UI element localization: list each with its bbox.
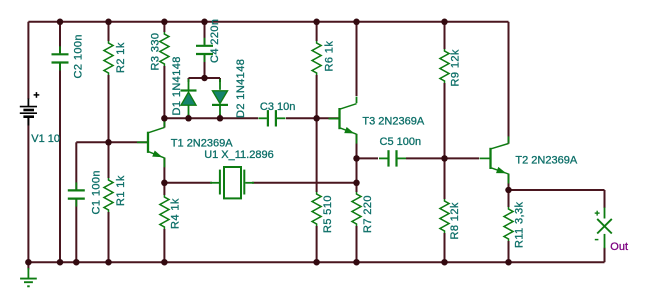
- svg-text:R5 510: R5 510: [322, 195, 334, 233]
- svg-text:R2 1k: R2 1k: [115, 42, 127, 73]
- svg-text:D1 1N4148: D1 1N4148: [171, 56, 183, 115]
- svg-text:C4 220n: C4 220n: [209, 19, 221, 63]
- svg-text:R9 12k: R9 12k: [450, 49, 462, 86]
- svg-text:D2 1N4148: D2 1N4148: [235, 59, 247, 118]
- svg-text:R3 330: R3 330: [149, 33, 161, 71]
- svg-text:R8 12k: R8 12k: [449, 202, 461, 239]
- svg-text:R7 220: R7 220: [362, 195, 374, 233]
- svg-text:R6 1k: R6 1k: [324, 41, 336, 72]
- svg-text:V1 10: V1 10: [31, 133, 60, 145]
- svg-text:T3 2N2369A: T3 2N2369A: [362, 116, 424, 128]
- svg-text:R1 1k: R1 1k: [115, 175, 127, 206]
- svg-text:Out: Out: [610, 241, 628, 253]
- svg-text:C3 10n: C3 10n: [260, 101, 295, 113]
- svg-text:U1 X_11.2896: U1 X_11.2896: [204, 149, 274, 161]
- svg-text:R11 3,3k: R11 3,3k: [513, 201, 525, 248]
- svg-text:C2 100n: C2 100n: [72, 34, 84, 78]
- svg-text:T2 2N2369A: T2 2N2369A: [515, 155, 577, 167]
- svg-text:R4 1k: R4 1k: [170, 198, 182, 229]
- svg-text:C1 100n: C1 100n: [91, 170, 103, 214]
- svg-text:C5 100n: C5 100n: [380, 136, 422, 148]
- svg-text:T1 2N2369A: T1 2N2369A: [171, 138, 233, 150]
